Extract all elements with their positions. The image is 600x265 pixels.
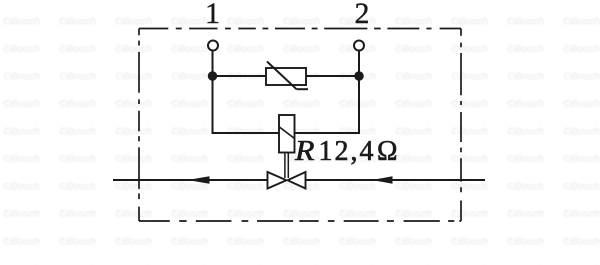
flow arrow right: [372, 176, 393, 184]
wire: junction A down: [212, 76, 214, 134]
svg-text:2: 2: [355, 0, 370, 30]
svg-text:R12,4Ω: R12,4Ω: [294, 136, 398, 167]
valve stem (double line): [285, 153, 288, 179]
enclosure boundary (dash-dot frame): [139, 29, 461, 222]
flow line right: [306, 179, 486, 181]
junction A: [208, 71, 218, 81]
valve V1 (bowtie): [268, 172, 306, 189]
terminal 2: [354, 41, 364, 51]
wire: junction A to varistor left: [213, 75, 267, 77]
svg-text:1: 1: [205, 0, 220, 30]
wire: varistor right to junction B: [306, 75, 359, 77]
terminal 1: [208, 41, 218, 51]
wire: terminal 1 to junction A: [212, 52, 214, 77]
flow line left: [113, 179, 268, 181]
wire: terminal 2 to junction B: [358, 52, 360, 77]
solenoid coil L1: [279, 115, 295, 153]
flow arrow left: [188, 176, 210, 183]
varistor RV1: [266, 62, 308, 90]
wire: left to coil: [212, 132, 280, 134]
junction B: [354, 71, 364, 81]
wire: junction B down: [358, 76, 360, 134]
wire: coil to right: [295, 132, 361, 134]
